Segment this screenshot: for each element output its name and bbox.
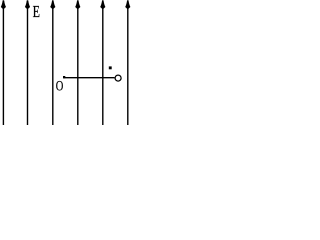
svg-text:O: O [56, 78, 64, 94]
field line 1 (wire) [2, 1, 4, 125]
arrowhead 4 [75, 0, 80, 9]
label E [33, 3, 41, 21]
arrowhead 5 [100, 0, 105, 9]
arrowhead 6 [125, 0, 130, 9]
node dot near ring [109, 66, 112, 69]
background [0, 0, 132, 125]
node dot at O (pivot) [63, 76, 65, 78]
field line 2 (wire) [27, 1, 29, 125]
arrowhead 2 [25, 0, 30, 9]
field line 6 (wire) [127, 1, 129, 125]
arrowhead 1 [1, 0, 6, 9]
label O [56, 78, 64, 94]
field line 5 (wire) [102, 1, 104, 125]
field line 4 (wire) [77, 1, 79, 125]
arrowhead 3 [50, 0, 55, 9]
field line 3 (wire) [52, 1, 54, 125]
svg-text:E: E [33, 3, 41, 21]
rod wire from O to ring [63, 77, 114, 79]
ring (small circle / ball) [115, 75, 121, 81]
